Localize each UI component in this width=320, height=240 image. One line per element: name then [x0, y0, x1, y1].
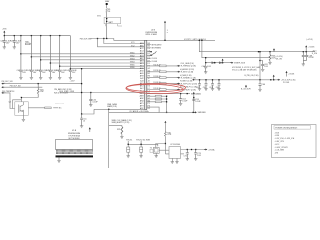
notes lines — [275, 132, 295, 154]
svg-text:C66: C66 — [262, 84, 265, 86]
svg-text:H_PWRGD (2.18): H_PWRGD (2.18) — [181, 66, 196, 68]
svg-text:C60: C60 — [202, 66, 205, 68]
svg-text:U7 DS1340: U7 DS1340 — [170, 144, 180, 146]
wire top line VCCRTC — [147, 39, 215, 41]
wire gate line — [5, 93, 15, 109]
svg-text:SML0DATA: SML0DATA — [191, 93, 201, 96]
wire mid row to IC — [60, 92, 145, 94]
pull-up ladder rows: resistor RP1 — [147, 95, 167, 97]
capacitor C45 — [49, 72, 51, 78]
capacitor C65 — [260, 61, 263, 70]
resistor row 4: R14 + net flag — [147, 83, 177, 85]
svg-text:VCCRTC_GNT1# SUSCLK: VCCRTC_GNT1# SUSCLK — [184, 39, 207, 41]
capacitor C43 — [30, 72, 32, 78]
wire pullup vertical — [165, 123, 169, 154]
svg-text:VSS1: VSS1 — [130, 52, 135, 54]
svg-text:SMLINK0: SMLINK0 — [198, 112, 206, 114]
svg-text:0.1UF: 0.1UF — [309, 57, 315, 59]
resistor RP3 — [147, 101, 167, 103]
wire left drop to crystal — [156, 144, 166, 156]
net flag line C end — [230, 62, 233, 64]
capacitor C70 — [127, 147, 130, 152]
svg-text:C40: C40 — [0, 40, 3, 42]
svg-text:0.1UF: 0.1UF — [182, 100, 188, 102]
pin numbers right column — [148, 43, 151, 110]
wire branch to R21 — [109, 126, 122, 137]
svg-text:22: 22 — [83, 120, 85, 122]
svg-text:+1.8V_CPU: +1.8V_CPU — [275, 141, 285, 143]
resistor R40 — [269, 52, 271, 63]
net flag gate — [1, 92, 4, 94]
capacitor C50 stack — [90, 93, 92, 105]
net flag bus D end — [277, 79, 280, 81]
power flag right — [305, 45, 307, 47]
svg-text:INTRUDER#: INTRUDER# — [151, 44, 161, 46]
wire left pin row SMBDATA — [94, 108, 144, 110]
notes title — [274, 126, 311, 130]
wire line C — [206, 58, 231, 63]
capacitor C62 — [205, 80, 207, 89]
capacitor C64 — [218, 80, 220, 89]
pin stub row 58.2 — [147, 57, 151, 59]
up flag tap on line A — [273, 48, 275, 50]
wire ground stem — [58, 157, 60, 160]
wire drain link — [21, 98, 38, 102]
svg-text:+V3.3A: +V3.3A — [208, 148, 215, 151]
svg-text:=: = — [167, 32, 168, 34]
wire bus row 2 — [31, 56, 144, 58]
wire vertical 260 rail — [259, 52, 261, 80]
diode D2 — [219, 62, 222, 64]
wire U7 bottom pins — [172, 158, 177, 161]
wire source resistor line — [28, 107, 58, 109]
node staircase junctions — [20, 53, 21, 54]
svg-text:SMB_ALERT# (2.31): SMB_ALERT# (2.31) — [112, 121, 130, 124]
wire U7 right pin row — [181, 149, 205, 151]
diode D1 — [212, 62, 215, 64]
svg-text:(+V3.3): (+V3.3) — [307, 39, 313, 41]
pin name labels at row ends — [130, 42, 135, 69]
op-amp U2 main IC body — [144, 40, 146, 109]
svg-text:+1.5V_ICH, +1.05V_ICH: +1.5V_ICH, +1.05V_ICH — [275, 138, 295, 140]
capacitor C51 on V1 — [81, 114, 83, 126]
capacitor C46 — [59, 72, 61, 78]
wire row SML0 with nodes — [147, 93, 190, 95]
svg-text:C43: C43 — [27, 70, 30, 72]
wire bus D sus rail — [196, 79, 277, 81]
svg-text:779-PIN BGA: 779-PIN BGA — [68, 134, 80, 137]
wire power rail — [4, 33, 70, 36]
svg-text:PU 10K: PU 10K — [283, 82, 290, 84]
wire L2 — [5, 86, 43, 88]
wire SMBus row to bus — [147, 107, 193, 112]
power flag VCCSUS3_3 — [3, 31, 5, 33]
svg-text:H_INIT# (2.18): H_INIT# (2.18) — [181, 72, 194, 74]
wire lower bus — [109, 111, 159, 113]
svg-text:CLK14: CLK14 — [151, 58, 157, 60]
connector U5 body — [56, 140, 93, 150]
wire bus row 6 — [70, 68, 144, 70]
resistor R25 pullup — [37, 84, 39, 98]
power flag VCCRTC — [164, 21, 166, 23]
wire source to ground — [22, 115, 24, 119]
power flag mid tap — [286, 71, 288, 73]
wire VBAT stem — [106, 5, 108, 39]
svg-text:H_A20M# (2.18): H_A20M# (2.18) — [180, 68, 194, 71]
svg-text:B_PW_OK (2.30): B_PW_OK (2.30) — [245, 75, 259, 77]
pin stub row 51.7 with node — [147, 51, 151, 53]
resistor row 3: R13 + net flag — [147, 77, 177, 79]
capacitor C68 — [306, 52, 308, 61]
capacitor C73 — [195, 150, 197, 159]
svg-text:- - - - - - - -: - - - - - - - - — [55, 102, 64, 104]
net flag L2 — [1, 86, 4, 88]
resistor RP2 — [147, 98, 167, 100]
wire crystal net — [128, 141, 158, 156]
capacitor C42 — [20, 72, 22, 78]
pin stub row 44.6 — [147, 44, 151, 46]
node dots on PM line — [97, 38, 98, 39]
wire drop to row A — [104, 39, 144, 44]
crystal squiggle no-connect — [151, 51, 156, 55]
resistor R30 — [30, 43, 32, 45]
ground — [175, 162, 178, 164]
power flag pullup — [164, 121, 166, 123]
notes box frame — [272, 125, 317, 158]
wire line B — [202, 40, 270, 57]
ground — [120, 137, 123, 139]
node junction dots on battery line — [106, 18, 107, 19]
svg-text:C41: C41 — [10, 40, 13, 42]
ground — [3, 47, 6, 49]
wire bus row 1 — [21, 53, 144, 55]
capacitor C67 — [303, 52, 306, 61]
svg-text:VSS6: VSS6 — [130, 67, 135, 69]
svg-text:H_STPCLK# (2.18): H_STPCLK# (2.18) — [181, 83, 198, 85]
svg-text:B_CK_SLP#: B_CK_SLP# — [241, 89, 251, 91]
wire bus row 5 — [60, 65, 144, 67]
svg-text:C45: C45 — [46, 70, 49, 72]
pin stub row 47.8 — [147, 47, 151, 49]
svg-text:MAIN (2.31): MAIN (2.31) — [107, 105, 117, 108]
svg-text:POWER ON SEQUENCE:: POWER ON SEQUENCE: — [275, 127, 298, 129]
pin numbers left column — [140, 42, 144, 110]
pin stub row 61.3 — [147, 60, 151, 62]
capacitor C52 — [180, 94, 182, 104]
wire battery box stubs — [106, 24, 122, 27]
pin number micro row — [56, 152, 93, 154]
wire drop to row B — [98, 39, 145, 47]
svg-text:VSS2: VSS2 — [130, 55, 135, 57]
node rail junctions — [4, 35, 5, 36]
svg-text:0.1UF: 0.1UF — [195, 101, 201, 103]
svg-text:+VCC: +VCC — [275, 144, 281, 146]
resistor row 1: R11 + net flag H_PWRGD — [147, 65, 177, 67]
net flag L1 — [1, 83, 4, 85]
label U5 title lines — [68, 130, 81, 140]
svg-text:SUS_STAT# 100K: SUS_STAT# 100K — [59, 90, 75, 93]
wire bus row 3 — [41, 59, 144, 61]
net flag U7 — [204, 149, 207, 151]
svg-text:+V3.3S: +V3.3S — [308, 47, 315, 49]
ground — [22, 119, 25, 121]
svg-text:VSS4: VSS4 — [130, 62, 135, 64]
wire gate bias loop — [13, 100, 22, 109]
svg-text:R2: R2 — [148, 108, 150, 110]
net flag SMB — [194, 111, 197, 113]
svg-text:I2C ADDR = 0101100b: I2C ADDR = 0101100b — [130, 110, 149, 113]
svg-text:+1.05V_CPUVR: +1.05V_CPUVR — [275, 147, 289, 149]
svg-text:AR2: AR2 — [140, 107, 144, 110]
svg-text:+V3.3S: +V3.3S — [288, 73, 295, 75]
svg-text:C47: C47 — [66, 70, 69, 72]
svg-text:Q2: Q2 — [9, 102, 12, 104]
capacitor C41 — [13, 36, 15, 47]
power flag VCCSUS — [222, 59, 224, 61]
capacitor C63 — [212, 80, 214, 89]
svg-text:C44: C44 — [36, 70, 39, 72]
resistor row 5 inside red circle: R15 + net flag — [147, 89, 177, 91]
power flag on bus D — [273, 75, 275, 77]
svg-text:INTVRMEN: INTVRMEN — [151, 48, 161, 50]
svg-text:VCC1.5_SB (INT VR MODE): VCC1.5_SB (INT VR MODE) — [232, 70, 257, 72]
capacitor C47 polarized — [69, 72, 71, 78]
svg-text:R30: R30 — [25, 42, 28, 44]
resistor R45 4.7K — [165, 132, 167, 137]
wire vertical drops to bottom caps — [21, 36, 71, 71]
ground — [171, 162, 174, 164]
svg-text:RTCX2 32.768K: RTCX2 32.768K — [136, 140, 150, 142]
wire bus row 4 — [50, 62, 144, 64]
ground bar — [56, 155, 94, 157]
capacitor C60 — [205, 63, 207, 72]
wire crystal to U7 — [159, 149, 169, 151]
svg-text:RTCX1: RTCX1 — [126, 140, 132, 142]
power flag V3.3SUS — [193, 92, 195, 94]
svg-text:CLK_GEN (2.4): CLK_GEN (2.4) — [180, 63, 194, 65]
power flag bottom — [89, 127, 91, 129]
svg-text:R21: R21 — [117, 129, 120, 131]
svg-text:C46: C46 — [55, 70, 58, 72]
svg-text:V5REF_SUS: V5REF_SUS — [234, 63, 246, 65]
wire ladder collector vertical — [166, 96, 168, 112]
resistor R1 — [106, 8, 108, 12]
svg-text:H_NMI (2.18): H_NMI (2.18) — [180, 75, 192, 77]
ground — [13, 47, 16, 49]
resistor R21 — [121, 127, 123, 135]
svg-text:+CLK_GEN: +CLK_GEN — [275, 150, 285, 152]
svg-text:C72: C72 — [184, 155, 187, 157]
red annotation ellipse — [126, 84, 186, 95]
svg-text:VCCSUS3_3: VCC3.3_SLP_LAN: VCCSUS3_3: VCC3.3_SLP_LAN — [232, 66, 261, 69]
svg-text:0.1UF: 0.1UF — [93, 101, 99, 103]
svg-text:CLK48: CLK48 — [151, 61, 157, 63]
svg-text:BT1: BT1 — [97, 16, 100, 18]
capacitor C72 — [186, 150, 188, 159]
node on L1 — [38, 83, 39, 84]
resistor R27 — [45, 107, 52, 109]
ground — [57, 160, 60, 162]
resistor row 2: R12 + net flag — [147, 71, 177, 73]
capacitor C53 — [192, 99, 195, 100]
svg-text:INTEL ICH6M: INTEL ICH6M — [146, 34, 158, 36]
capacitor C40 — [3, 36, 5, 47]
svg-text:S_ICH: S_ICH — [312, 53, 318, 55]
capacitor C71 — [140, 147, 143, 152]
svg-text:PM_PWRBTN#: PM_PWRBTN# — [2, 91, 14, 93]
svg-text:+ 25V: + 25V — [70, 81, 76, 83]
svg-text:VR_ON: VR_ON — [276, 58, 283, 60]
wire V1 vertical — [82, 69, 94, 114]
capacitor C66 — [259, 80, 261, 90]
svg-text:PM_SLP_S3#: PM_SLP_S3# — [2, 81, 13, 83]
svg-text:H_SMI# (2.18): H_SMI# (2.18) — [180, 81, 193, 83]
wire long vertical to bottom edge — [108, 109, 110, 168]
pin stubs row — [57, 150, 93, 152]
svg-text:C42: C42 — [17, 70, 20, 72]
capacitor C44 — [40, 72, 42, 78]
wire L1 — [5, 83, 82, 85]
capacitor C61 — [199, 80, 201, 89]
pin stub row 55.2 with node — [147, 54, 151, 56]
power flag B_CK tap — [245, 85, 247, 87]
wire U7 right pin 2 — [181, 153, 185, 155]
wire line A main 3.3V rail — [199, 40, 315, 51]
svg-text:VSS3: VSS3 — [130, 58, 135, 60]
wire PM line — [90, 39, 145, 41]
node dots mid line A — [258, 51, 259, 52]
